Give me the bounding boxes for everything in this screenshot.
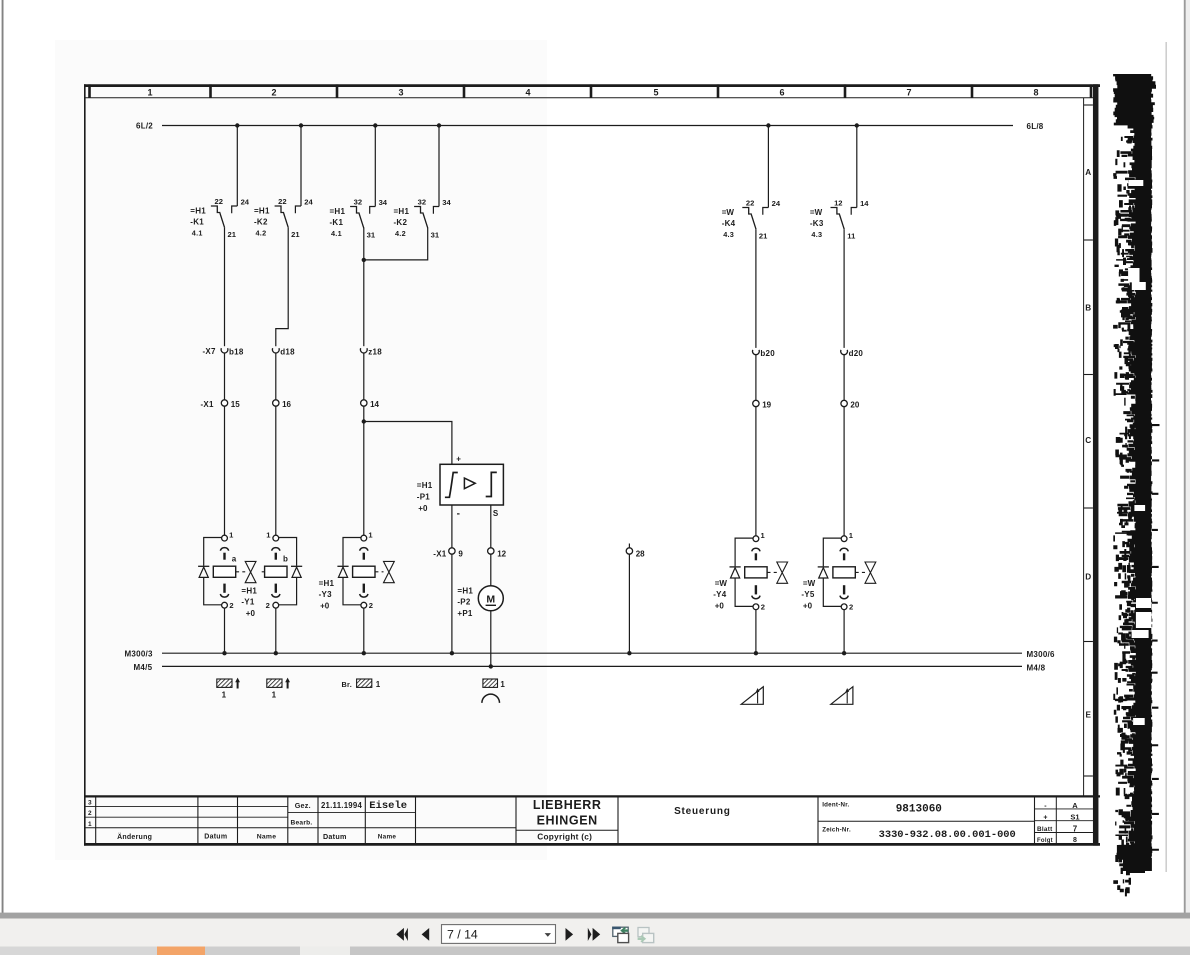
svg-text:14: 14	[860, 199, 869, 208]
toolbar previous-page button	[422, 928, 430, 941]
svg-text:3330-932.08.00.001-000: 3330-932.08.00.001-000	[879, 829, 1016, 841]
svg-text:d18: d18	[280, 347, 295, 356]
svg-text:Datum: Datum	[323, 832, 347, 841]
shield symbol 3 (Br.)	[342, 679, 381, 689]
wire column1 b18 to -X1:15	[224, 353, 226, 399]
column numbers 1-8	[147, 87, 1038, 97]
svg-text:22: 22	[746, 198, 754, 207]
contact -K3	[831, 198, 870, 240]
junction -X1:9 on M300 bus	[450, 651, 454, 655]
wire -P1 minus pin down to -X1:9	[451, 505, 453, 548]
revision row numbers 3 2 1	[88, 800, 92, 828]
svg-text:24: 24	[241, 197, 250, 206]
svg-text:8: 8	[1073, 837, 1077, 844]
wire column5 from contact -K4 down	[755, 229, 757, 348]
svg-text:9: 9	[458, 549, 463, 558]
svg-text:=H1: =H1	[241, 586, 257, 595]
contact -K2 b	[414, 197, 451, 239]
svg-text:1: 1	[500, 680, 505, 689]
wire -X1:9 down to M300 bus	[451, 554, 453, 653]
svg-text:B: B	[1085, 304, 1091, 313]
label =W -K3 4.3 for contact -K3	[810, 208, 824, 239]
toolbar next-view window icon (disabled)	[638, 928, 654, 943]
wire column2 d18 to -X1:16	[275, 353, 277, 399]
wire -Y3 to M300 bus	[363, 608, 365, 653]
svg-text:Steuerung: Steuerung	[674, 806, 731, 817]
svg-text:11: 11	[847, 232, 856, 241]
svg-text:28: 28	[636, 549, 645, 558]
svg-text:4.2: 4.2	[395, 229, 406, 238]
svg-text:=H1: =H1	[417, 481, 433, 490]
wire -Y1 b to M300 bus	[275, 608, 277, 653]
wire column3 -X1:14 to amplifier junction	[363, 406, 365, 421]
svg-text:=H1: =H1	[190, 207, 206, 216]
wire -Y4 to M300 bus	[755, 610, 757, 654]
toolbar first-page button	[396, 928, 408, 941]
junction -Y1 b on M300 bus	[274, 651, 278, 655]
scanned binder edge strip (artifact)	[1113, 74, 1159, 896]
svg-text:-X1: -X1	[433, 549, 447, 558]
junction on bus at x=439	[437, 123, 441, 127]
junction on bus at x=301	[299, 123, 303, 127]
svg-text:6: 6	[779, 87, 784, 97]
terminal -X1 19	[753, 400, 772, 409]
svg-text:21: 21	[759, 232, 768, 241]
svg-text:=H1: =H1	[394, 207, 410, 216]
row letters A-E	[1085, 168, 1091, 720]
svg-text:1: 1	[376, 680, 381, 689]
svg-text:Ident-Nr.: Ident-Nr.	[822, 801, 849, 808]
valve body symbol for -Y3	[375, 561, 394, 582]
svg-text:Gez.: Gez.	[295, 801, 311, 810]
wire 28 down to M300 bus	[628, 554, 630, 653]
Zeichn-Nr. 3330-932.08.00.001-000	[822, 827, 1016, 841]
wire column1 -X1:15 to valve Y1a	[224, 406, 226, 535]
svg-text:Eisele: Eisele	[369, 800, 407, 812]
svg-text:C: C	[1085, 436, 1091, 445]
wire column6 -X1:20 to valve Y5	[843, 407, 845, 536]
junction -Y3 on M300 bus	[362, 651, 366, 655]
svg-text:b20: b20	[760, 349, 775, 358]
toolbar previous-view window icon (enabled)	[612, 927, 628, 943]
wire bus M300	[162, 652, 1022, 654]
svg-text:-K1: -K1	[330, 218, 344, 227]
wire from contact -K1b down to junction	[363, 228, 365, 260]
wire column5 -X1:19 to valve Y4	[755, 407, 757, 536]
svg-text:Br.: Br.	[342, 680, 352, 689]
svg-text:22: 22	[214, 197, 222, 206]
svg-text:7: 7	[1073, 825, 1078, 834]
ramp symbol 1	[741, 687, 763, 705]
wire column3 junction to z18	[363, 260, 365, 346]
svg-text:+0: +0	[320, 601, 330, 610]
window left border	[2, 0, 4, 913]
svg-text:7 / 14: 7 / 14	[447, 928, 478, 942]
svg-text:4: 4	[525, 87, 530, 97]
svg-text:31: 31	[367, 231, 376, 240]
Gez. / Bearb. cells	[290, 800, 407, 841]
terminal -X7 d20	[841, 349, 864, 358]
wire bus tap for contact -K1 b	[374, 126, 376, 207]
svg-text:+0: +0	[418, 504, 428, 513]
svg-text:4.3: 4.3	[811, 230, 822, 239]
valve body symbol for -Y1 a	[236, 561, 256, 582]
solenoid valve coil -Y1 b	[265, 530, 303, 610]
svg-text:5: 5	[653, 87, 658, 97]
contact -K1 b	[350, 197, 388, 239]
svg-text:15: 15	[231, 400, 240, 409]
svg-text:Blatt: Blatt	[1037, 826, 1053, 833]
svg-text:2: 2	[271, 87, 276, 97]
svg-text:-Y3: -Y3	[319, 590, 333, 599]
svg-text:8: 8	[1033, 87, 1038, 97]
svg-text:32: 32	[354, 197, 362, 206]
junction -Y4 on M300 bus	[754, 651, 758, 655]
svg-text:=W: =W	[810, 208, 823, 217]
toolbar separator bar	[0, 913, 1190, 919]
svg-text:7: 7	[906, 87, 911, 97]
svg-text:+0: +0	[715, 601, 725, 610]
wire bus tap for contact -K1 a	[236, 126, 238, 207]
svg-text:2: 2	[761, 602, 765, 611]
svg-text:Copyright (c): Copyright (c)	[537, 831, 592, 841]
svg-text:1: 1	[147, 87, 152, 97]
label =H1 -K2 4.2 for contact -K2 a	[254, 207, 270, 238]
page edge hairline	[1166, 42, 1167, 872]
svg-text:=W: =W	[803, 579, 816, 588]
label =H1 -K2 4.2 for contact -K2 b	[394, 207, 410, 238]
svg-text:=H1: =H1	[319, 579, 335, 588]
svg-text:-K2: -K2	[394, 218, 408, 227]
svg-text:=H1: =H1	[254, 207, 270, 216]
svg-text:21: 21	[291, 230, 300, 239]
svg-text:12: 12	[834, 198, 842, 207]
terminal -X7 b20	[753, 349, 776, 358]
label =W -Y4 +0	[713, 579, 727, 611]
label =H1 -Y3 +0	[319, 579, 335, 611]
wire bus tap for contact -K4	[767, 126, 769, 208]
svg-text:M300/3: M300/3	[125, 650, 153, 659]
svg-text:Folgt: Folgt	[1037, 838, 1053, 844]
junction dot 31-link	[362, 258, 366, 262]
svg-text:12: 12	[497, 549, 506, 558]
wire branch to amplifier -P1	[364, 422, 452, 465]
junction dot amplifier branch	[362, 419, 366, 423]
wire link from contact -K2b to junction	[364, 228, 428, 260]
svg-text:6L/2: 6L/2	[136, 121, 153, 130]
wire column6 d20 to -X1:20	[843, 355, 845, 400]
svg-text:Name: Name	[257, 834, 277, 841]
label =W -K4 4.3 for contact -K4	[722, 208, 736, 239]
svg-text:A: A	[1072, 801, 1078, 810]
wire column1 from contact -K1a down	[224, 228, 226, 347]
solenoid valve coil -Y1 a	[198, 530, 236, 610]
shield symbol 1 (cable screen)	[217, 678, 240, 700]
svg-text:+: +	[456, 455, 461, 464]
toolbar next-page button	[566, 928, 574, 941]
svg-text:+0: +0	[246, 609, 256, 618]
toolbar background	[0, 919, 1190, 947]
svg-text:-P2: -P2	[457, 598, 471, 607]
page number combo box 7 / 14	[442, 925, 556, 944]
svg-text:z18: z18	[368, 347, 382, 356]
svg-text:-K1: -K1	[190, 218, 204, 227]
shield symbol 4 (motor cable)	[483, 679, 506, 689]
terminal -X7 z18	[360, 347, 382, 356]
svg-text:Name: Name	[378, 834, 397, 841]
svg-text:6L/8: 6L/8	[1027, 122, 1044, 131]
junction -Y5 on M300 bus	[842, 651, 846, 655]
svg-text:+0: +0	[803, 601, 813, 610]
svg-text:14: 14	[370, 400, 379, 409]
terminal -X7 d18	[272, 347, 295, 356]
Ident-Nr. 9813060	[822, 801, 942, 815]
terminal -X1 12	[488, 548, 507, 559]
svg-text:EHINGEN: EHINGEN	[537, 813, 598, 827]
svg-text:-X1: -X1	[201, 400, 215, 409]
svg-text:4.3: 4.3	[723, 230, 734, 239]
svg-text:S: S	[493, 509, 499, 518]
wire bus tap for contact -K2 a	[300, 126, 302, 207]
wire -P1 S pin down to -X1:12	[490, 505, 492, 548]
title block	[84, 796, 1100, 844]
svg-text:1: 1	[222, 690, 227, 699]
svg-text:=W: =W	[722, 208, 735, 217]
clamp arc below motor shield	[482, 694, 500, 703]
label =H1 -P1 +0	[417, 481, 433, 513]
svg-text:Zeich-Nr.: Zeich-Nr.	[822, 827, 851, 834]
terminal -X1 16	[273, 400, 292, 409]
svg-text:31: 31	[431, 231, 440, 240]
svg-text:16: 16	[282, 400, 291, 409]
svg-text:=H1: =H1	[330, 207, 346, 216]
svg-text:M300/6: M300/6	[1027, 650, 1055, 659]
motor M =H1 -P2 +P1	[478, 586, 503, 611]
window right border	[1184, 0, 1186, 913]
svg-text:S1: S1	[1070, 813, 1079, 822]
svg-text:1: 1	[272, 690, 277, 699]
terminal -X7 b18	[203, 347, 244, 356]
wire bus M4	[162, 665, 1022, 667]
wire bus tap for contact -K2 b	[438, 126, 440, 207]
svg-text:=H1: =H1	[457, 586, 473, 595]
wire top bus 6L	[162, 125, 1013, 127]
label =H1 -Y1 +0	[241, 586, 257, 618]
terminal -X1 20	[841, 400, 860, 409]
sheet info table	[1037, 801, 1080, 844]
svg-text:-Y1: -Y1	[241, 598, 255, 607]
svg-text:3: 3	[88, 800, 92, 807]
wire column3 z18 to -X1:14	[363, 353, 365, 399]
terminal -X1 14	[361, 400, 380, 409]
border frame	[84, 84, 1100, 845]
svg-text:2: 2	[88, 810, 92, 817]
svg-text:-Y5: -Y5	[801, 590, 815, 599]
svg-text:1: 1	[88, 821, 92, 828]
op-amp / amplifier card =H1 -P1 +0	[440, 464, 503, 505]
wire column6 from contact -K3 down	[843, 229, 845, 348]
junction on bus at x=237.3	[235, 123, 239, 127]
svg-text:21.11.1994: 21.11.1994	[321, 801, 363, 810]
terminal -X1 9	[433, 548, 463, 559]
svg-text:19: 19	[762, 400, 771, 409]
label =H1 -K1 4.1 for contact -K1 a	[190, 207, 206, 238]
svg-text:+P1: +P1	[457, 609, 473, 618]
svg-text:3: 3	[398, 87, 403, 97]
solenoid valve coil -Y3	[337, 530, 375, 610]
svg-text:20: 20	[850, 400, 859, 409]
svg-text:-K3: -K3	[810, 219, 824, 228]
label =W -Y5 +0	[801, 579, 815, 611]
svg-text:+: +	[1043, 815, 1047, 822]
wire motor down to M4 bus	[490, 611, 492, 667]
svg-text:24: 24	[304, 197, 313, 206]
LIEBHERR EHINGEN logo cell	[533, 798, 602, 842]
ramp symbol 2	[831, 687, 853, 705]
terminal -X1 28	[626, 544, 645, 559]
svg-text:2: 2	[229, 601, 233, 610]
solenoid valve coil -Y5	[818, 531, 856, 612]
svg-text:-K2: -K2	[254, 218, 268, 227]
svg-text:Datum: Datum	[204, 834, 227, 841]
junction on bus at x=375.3	[373, 123, 377, 127]
svg-text:-: -	[457, 509, 460, 520]
bottom strip segments	[0, 947, 1190, 956]
svg-text:M: M	[486, 593, 495, 605]
svg-text:b: b	[283, 554, 288, 563]
junction on bus at x=856.8	[855, 123, 859, 127]
toolbar last-page button	[588, 928, 600, 941]
svg-text:2: 2	[369, 601, 373, 610]
contact -K2 a	[275, 197, 314, 239]
svg-text:M4/8: M4/8	[1027, 663, 1046, 672]
svg-text:E: E	[1085, 711, 1091, 720]
label =H1 -K1 4.1 for contact -K1 b	[330, 207, 346, 238]
svg-text:4.2: 4.2	[256, 229, 267, 238]
wire column5 b20 to -X1:19	[755, 355, 757, 400]
wire bus tap for contact -K3	[856, 126, 858, 208]
svg-text:21: 21	[227, 230, 236, 239]
label =H1 -P2 +P1	[457, 586, 473, 618]
wire column2 -X1:16 to valve Y1b	[275, 406, 277, 535]
svg-text:Änderung: Änderung	[117, 833, 152, 841]
mechanical link dashes Y1	[262, 571, 265, 573]
svg-text:-P1: -P1	[417, 492, 431, 501]
valve body symbol for -Y4	[767, 562, 788, 583]
contact -K4	[742, 198, 781, 240]
wire column3 junction down to valve Y3	[363, 422, 365, 536]
svg-text:22: 22	[278, 197, 286, 206]
svg-text:-X7: -X7	[203, 347, 217, 356]
junction on bus at x=768.4	[766, 123, 770, 127]
svg-text:LIEBHERR: LIEBHERR	[533, 798, 602, 812]
svg-text:=W: =W	[715, 579, 728, 588]
contact -K1 a	[211, 197, 250, 239]
wire -Y1 a to M300 bus	[224, 608, 226, 653]
svg-text:9813060: 9813060	[896, 804, 942, 816]
svg-text:-K4: -K4	[722, 219, 736, 228]
svg-text:2: 2	[849, 602, 853, 611]
junction 28 on M300 bus	[627, 651, 631, 655]
svg-text:4.1: 4.1	[331, 229, 342, 238]
svg-text:a: a	[232, 554, 237, 563]
wire -X1:12 to motor -P2	[490, 554, 492, 586]
solenoid valve coil -Y4	[730, 531, 768, 612]
svg-text:4.1: 4.1	[192, 229, 203, 238]
wire -Y5 to M300 bus	[843, 610, 845, 654]
svg-text:A: A	[1085, 168, 1091, 177]
junction -Y1 a on M300 bus	[222, 651, 226, 655]
svg-text:Bearb.: Bearb.	[290, 820, 312, 827]
svg-text:34: 34	[442, 198, 451, 207]
svg-text:M4/5: M4/5	[134, 663, 153, 672]
svg-text:-Y4: -Y4	[713, 590, 727, 599]
shield symbol 2 (cable screen)	[267, 678, 290, 700]
junction motor on M4 bus	[489, 664, 493, 668]
terminal -X1 15	[201, 400, 241, 409]
header labels Aenderung Datum Name	[117, 833, 276, 841]
svg-text:32: 32	[418, 197, 426, 206]
svg-text:2: 2	[266, 601, 270, 610]
wire column2 from contact -K2a jog down	[276, 228, 288, 347]
svg-text:b18: b18	[229, 347, 244, 356]
svg-text:D: D	[1085, 573, 1091, 582]
svg-text:24: 24	[772, 199, 781, 208]
svg-text:d20: d20	[849, 349, 864, 358]
valve body symbol for -Y5	[855, 562, 876, 583]
svg-text:34: 34	[379, 198, 388, 207]
